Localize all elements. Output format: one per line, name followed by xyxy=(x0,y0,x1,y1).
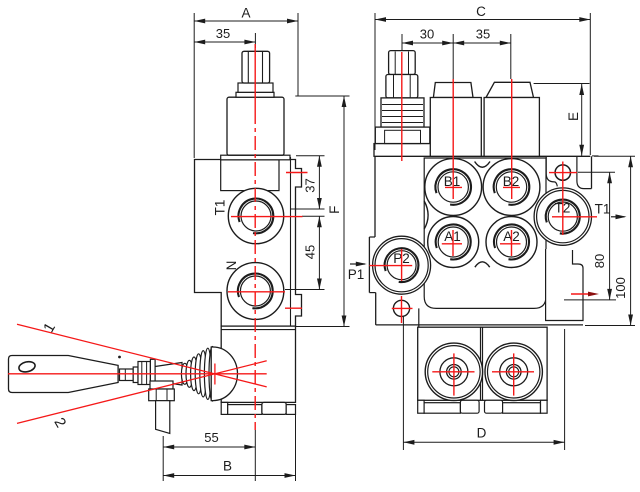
spool end 2 xyxy=(485,343,542,400)
spool2 cross h xyxy=(492,371,534,373)
raised port face plate xyxy=(424,158,546,308)
svg-text:45: 45 xyxy=(303,245,318,259)
section 1 cap xyxy=(433,83,473,98)
cap collar 1 xyxy=(238,83,273,92)
upper hole cross h xyxy=(549,172,577,174)
spool end cap xyxy=(227,97,284,155)
T2 cross h xyxy=(552,216,597,218)
dim 30 xyxy=(401,34,403,50)
dim 35 (front view) xyxy=(453,41,464,46)
elbow hex nut xyxy=(149,389,175,401)
T2 + hole vertical red xyxy=(562,162,564,236)
N center red line xyxy=(228,291,285,293)
boot dome housing xyxy=(211,347,237,401)
lever joint hex nut xyxy=(138,362,150,385)
A1 thread ring xyxy=(436,224,471,259)
A2 thread ring xyxy=(494,224,529,259)
svg-text:55: 55 xyxy=(204,430,218,445)
P2 inner rings xyxy=(385,248,419,282)
valve body (side view) with right step bosses xyxy=(195,160,302,327)
B1 thread ring xyxy=(435,169,471,205)
bottom flange edge xyxy=(376,324,583,326)
port boss N xyxy=(227,263,284,320)
spool2 cross v xyxy=(513,353,515,395)
pivot dot xyxy=(118,356,121,359)
dim 80 xyxy=(578,171,615,173)
lever handle grip xyxy=(9,356,119,393)
body bottom block (side view) xyxy=(221,326,295,402)
fillet valley between B1 and B2 xyxy=(475,162,490,168)
adjusting stud hex nut xyxy=(242,51,270,83)
relief valve centerline xyxy=(401,52,403,161)
B1 bore xyxy=(438,172,468,202)
port boss B1 xyxy=(425,159,482,216)
dim 35 (left view) xyxy=(194,41,255,43)
svg-text:F: F xyxy=(327,206,342,214)
body left edge mid xyxy=(368,237,370,293)
relief valve hex cap xyxy=(389,51,416,75)
dim 55 xyxy=(162,436,164,481)
N thread ring xyxy=(238,274,273,309)
hex face line xyxy=(247,52,249,83)
body inner edge line xyxy=(290,157,292,326)
body top edge xyxy=(375,155,590,157)
section 2 centerline xyxy=(511,79,513,199)
cap flange plate xyxy=(221,155,290,160)
P2 cross v xyxy=(401,249,403,281)
section divider xyxy=(480,327,482,400)
svg-text:A: A xyxy=(241,6,250,21)
label P1 with flow arrow xyxy=(350,263,365,265)
dim 37 xyxy=(296,155,325,157)
svg-text:35: 35 xyxy=(216,26,230,41)
A1 cross v xyxy=(452,230,454,256)
svg-text:E: E xyxy=(566,112,581,121)
B2 bore xyxy=(496,172,526,202)
dim 45 xyxy=(302,215,325,217)
mounting hole upper right xyxy=(555,165,570,180)
T2 inner rings xyxy=(546,200,580,234)
lever neutral axis red xyxy=(8,373,267,375)
red outlet flow arrow xyxy=(571,293,592,295)
plate edge to flange vertical xyxy=(418,308,420,327)
relief valve base xyxy=(375,127,430,144)
svg-text:T1: T1 xyxy=(595,202,611,217)
relief valve threaded body xyxy=(381,98,424,127)
svg-text:B: B xyxy=(223,459,232,474)
relief valve lock nut xyxy=(386,75,418,98)
svg-text:100: 100 xyxy=(613,277,628,299)
handle slot hole (O shape) xyxy=(18,360,36,373)
dim A xyxy=(193,13,195,158)
svg-text:C: C xyxy=(476,4,486,19)
A1 bore xyxy=(438,227,468,257)
section 2 cap xyxy=(486,82,534,97)
body left edge lower xyxy=(375,293,377,325)
svg-text:N: N xyxy=(224,261,239,271)
P2 lobe ring xyxy=(373,236,431,294)
dim C xyxy=(374,13,376,150)
A2 cross h xyxy=(500,243,521,245)
T1 thread ring xyxy=(239,199,274,234)
T2 lobe ring xyxy=(534,188,591,245)
section divider 2 xyxy=(482,327,484,400)
port boss A2 xyxy=(486,217,537,268)
elbow fitting xyxy=(150,381,173,389)
A2 bore xyxy=(497,227,527,257)
dim F xyxy=(295,95,349,97)
B2 thread ring xyxy=(494,169,530,205)
bottom block top double line xyxy=(221,329,295,331)
dim 100 xyxy=(594,155,635,157)
port boss T1 xyxy=(228,188,283,243)
port boss B2 xyxy=(483,159,540,216)
centerline of spool (side view) xyxy=(254,44,256,110)
T1 center red line xyxy=(231,216,303,218)
dim D xyxy=(402,316,404,450)
svg-text:80: 80 xyxy=(592,254,607,268)
A1 cross h xyxy=(442,243,462,245)
lever end cylinder xyxy=(120,369,134,381)
joint block xyxy=(150,359,155,387)
lever position 2 red line xyxy=(17,361,267,424)
lower hole cross v xyxy=(401,296,403,323)
T1 bore xyxy=(241,201,271,231)
N bore xyxy=(240,276,270,306)
bottom block (front view) xyxy=(418,327,547,400)
svg-text:D: D xyxy=(477,426,487,441)
mounting feet (side view) xyxy=(221,402,228,414)
section 1 centerline xyxy=(452,79,454,199)
drain pipe xyxy=(156,401,170,434)
dim E xyxy=(534,83,590,85)
spool1 cross h xyxy=(432,371,474,373)
port boss A1 xyxy=(428,217,479,268)
svg-text:30: 30 xyxy=(420,27,434,42)
svg-text:35: 35 xyxy=(476,27,490,42)
svg-text:T1: T1 xyxy=(213,200,228,216)
plate notch around upper mounting hole xyxy=(577,157,592,189)
lever position 1 red line xyxy=(17,324,267,387)
fillet valley left edge between B1 and A1 xyxy=(424,201,428,229)
body left edge upper xyxy=(374,156,376,237)
rubber boot bellows xyxy=(181,363,188,384)
mounting hole lower left xyxy=(393,300,409,316)
cap collar 2 xyxy=(236,92,274,97)
bonnet plate xyxy=(221,160,279,191)
B2 cross xyxy=(503,186,520,188)
hex face line xyxy=(262,52,264,83)
lower hole cross h xyxy=(392,307,413,309)
B1 cross xyxy=(445,186,462,188)
A2 cross v xyxy=(511,230,513,256)
dim B xyxy=(295,406,297,481)
red tick upper step xyxy=(286,172,308,174)
spool1 cross v xyxy=(453,353,455,395)
fillet valley between A1 and A2 xyxy=(475,262,490,267)
boot cone adapter xyxy=(155,363,182,386)
pivot vertical red tick xyxy=(214,364,216,385)
svg-text:P1: P1 xyxy=(348,267,365,282)
red tick lower step xyxy=(285,307,302,309)
svg-text:37: 37 xyxy=(303,178,318,192)
body right edge xyxy=(591,156,593,188)
mounting feet (front view) xyxy=(418,400,424,413)
P2 cross h xyxy=(369,265,412,267)
side outlet pad below T2 xyxy=(546,249,583,321)
washer xyxy=(133,367,138,383)
spool end 1 xyxy=(425,343,482,400)
